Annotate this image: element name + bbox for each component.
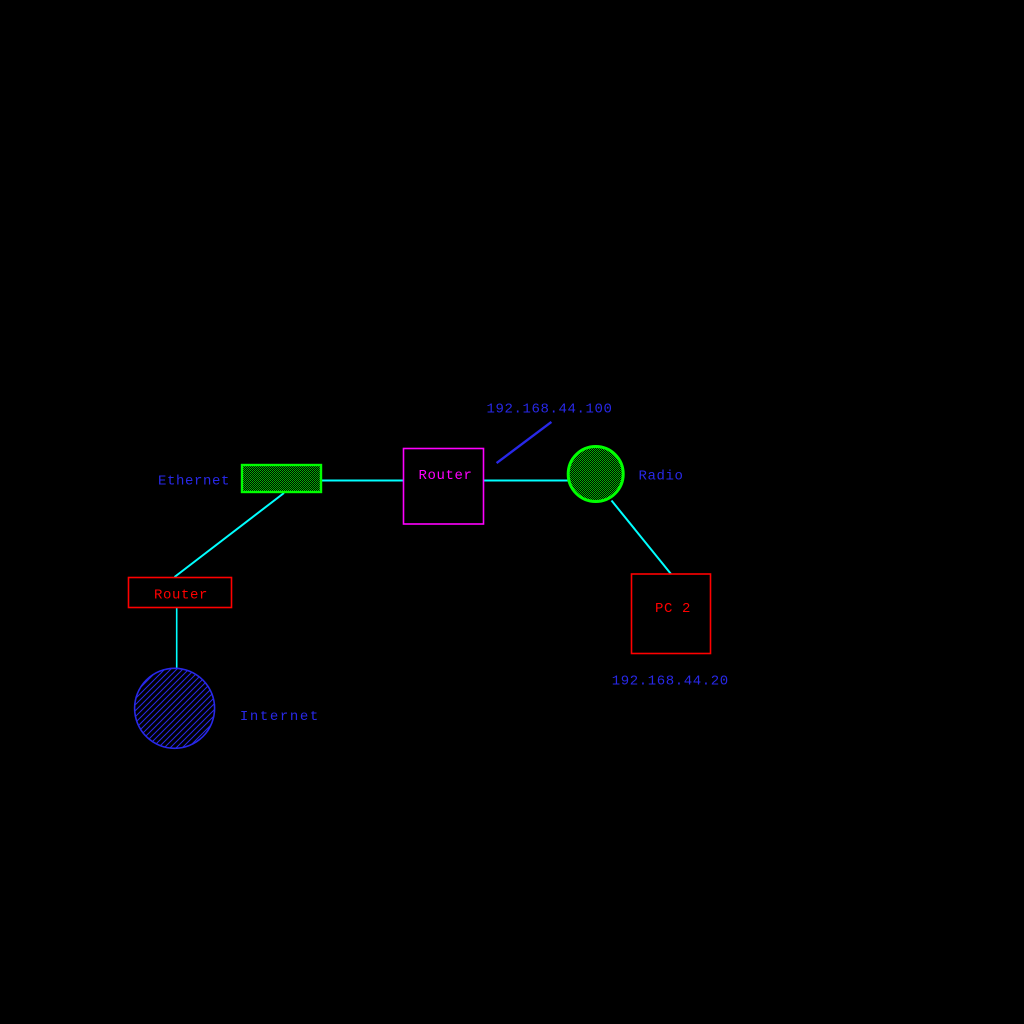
svg-text:Ethernet: Ethernet bbox=[158, 474, 230, 490]
node PC 2 (red box) bbox=[632, 574, 711, 654]
wire Router to Radio (horizontal cyan) bbox=[483, 480, 569, 482]
svg-text:PC 2: PC 2 bbox=[655, 601, 691, 617]
svg-text:Internet: Internet bbox=[240, 709, 320, 725]
node Radio (green stippled circle) bbox=[568, 447, 623, 502]
wire Radio to PC 2 (diagonal cyan) bbox=[612, 501, 672, 575]
node Ethernet (green stippled bar) bbox=[242, 465, 321, 492]
node Internet (blue hatched circle) bbox=[135, 668, 215, 748]
node Router 2 (red box) bbox=[129, 578, 232, 608]
svg-text:Radio: Radio bbox=[639, 468, 684, 484]
wire Ethernet to Router 2 (diagonal cyan) bbox=[175, 493, 285, 577]
callout line for 192.168.44.100 (blue) bbox=[497, 422, 552, 463]
svg-text:Router: Router bbox=[418, 468, 472, 484]
wire Router 2 to Internet (vertical cyan) bbox=[176, 607, 178, 669]
wire Ethernet to Router (horizontal cyan) bbox=[321, 480, 404, 482]
svg-text:192.168.44.20: 192.168.44.20 bbox=[612, 674, 729, 690]
svg-text:192.168.44.100: 192.168.44.100 bbox=[487, 402, 613, 418]
node Router U1 (magenta box) bbox=[404, 449, 484, 525]
svg-text:Router: Router bbox=[154, 587, 208, 603]
